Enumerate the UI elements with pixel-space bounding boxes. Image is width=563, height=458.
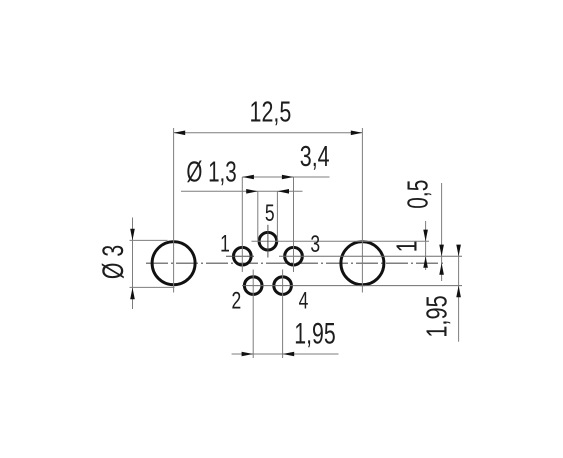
dimension 1,95 bottom line: [232, 353, 339, 355]
dimension diameter 3 top arrow: [130, 229, 135, 241]
pin 5 right edge extension line: [276, 191, 278, 241]
pin 5 crosshair horizontal + extension line: [252, 240, 430, 242]
svg-text:3,4: 3,4: [300, 141, 330, 173]
dimension 1,95 right text: [422, 295, 454, 337]
svg-text:1: 1: [391, 241, 423, 253]
mounting hole right: [341, 242, 384, 285]
pin 2 hole: [244, 277, 262, 295]
dimension 1,95 bottom right arrow: [283, 352, 295, 357]
pin 3 crosshair vertical: [293, 177, 295, 272]
pin 1 hole: [234, 247, 252, 265]
pin label 4: [299, 288, 309, 314]
pin 4 hole: [274, 277, 292, 295]
svg-text:5: 5: [265, 200, 275, 226]
dimension 12,5 left arrow: [174, 131, 186, 136]
dimension 1,95 right top arrow: [456, 245, 461, 257]
svg-text:3: 3: [310, 231, 320, 257]
dimension diameter 1,3 text: [186, 156, 236, 188]
svg-text:Ø 1,3: Ø 1,3: [186, 156, 236, 188]
dimension 0,5 top arrow: [439, 245, 444, 257]
dimension 1 text: [391, 241, 423, 253]
dimension 1,95 bottom text: [294, 316, 335, 351]
pin label 5: [265, 200, 275, 226]
dimension diameter 1,3 right arrow: [277, 189, 289, 194]
pin 5 hole: [259, 232, 277, 250]
dimension 1,95 right bottom arrow: [456, 286, 461, 298]
dimension 1,95 bottom left arrow: [242, 352, 254, 357]
centerline axis: [146, 262, 445, 264]
dimension 0,5 line (right side B): [441, 183, 443, 281]
mounting hole left: [152, 242, 195, 285]
pins 2-4 row horizontal crosshair + extension line: [242, 285, 462, 287]
svg-text:0,5: 0,5: [402, 180, 434, 209]
dimension diameter 3 line: [132, 218, 134, 310]
dimension diameter 3 bottom arrow: [130, 288, 135, 300]
dimension 1 bottom arrow: [423, 256, 428, 268]
pin label 3: [310, 231, 320, 257]
dimension 0,5 bottom arrow: [439, 263, 444, 275]
mounting hole left top extension line: [130, 239, 168, 241]
dimension 3,4 right arrow: [282, 175, 294, 180]
mounting hole left bottom extension line: [130, 286, 175, 288]
pin 5 crosshair vertical: [267, 225, 269, 258]
dimension 0,5 text: [402, 180, 434, 209]
dimension 3,4 line: [242, 176, 329, 178]
svg-text:4: 4: [299, 288, 309, 314]
pin 4 crosshair vertical + extension line: [282, 270, 284, 359]
dimension 12,5 text: [250, 96, 292, 128]
dimension diameter 1,3 left arrow: [246, 189, 258, 194]
dimension diameter 1,3 line: [181, 190, 303, 192]
pin label 1: [220, 231, 230, 257]
svg-text:1,95: 1,95: [294, 316, 335, 351]
pin 2 crosshair vertical + extension line: [252, 270, 254, 359]
dimension 1 line (right side A): [425, 221, 427, 270]
pin 1 crosshair horizontal: [226, 255, 254, 257]
pin 3 hole: [285, 247, 303, 265]
dimension 12,5 line: [174, 132, 363, 134]
mounting hole right vertical centerline: [361, 128, 363, 293]
dimension 1,95 right line (C): [458, 245, 460, 342]
dimension 3,4 left arrow: [242, 175, 254, 180]
pin 3 crosshair horizontal + extension line: [279, 255, 462, 257]
svg-text:1,95: 1,95: [422, 295, 454, 337]
dimension 3,4 text: [300, 141, 330, 173]
pin 1 crosshair vertical: [241, 177, 243, 272]
svg-text:12,5: 12,5: [250, 96, 292, 128]
pin label 2: [232, 288, 242, 314]
dimension 12,5 right arrow: [351, 131, 363, 136]
pin 5 left edge extension line: [257, 191, 259, 241]
svg-text:2: 2: [232, 288, 242, 314]
dimension 1 top arrow: [423, 230, 428, 242]
dimension diameter 3 text: [95, 245, 130, 279]
svg-text:1: 1: [220, 231, 230, 257]
svg-text:Ø 3: Ø 3: [95, 245, 130, 279]
mounting hole left vertical centerline: [173, 128, 175, 293]
